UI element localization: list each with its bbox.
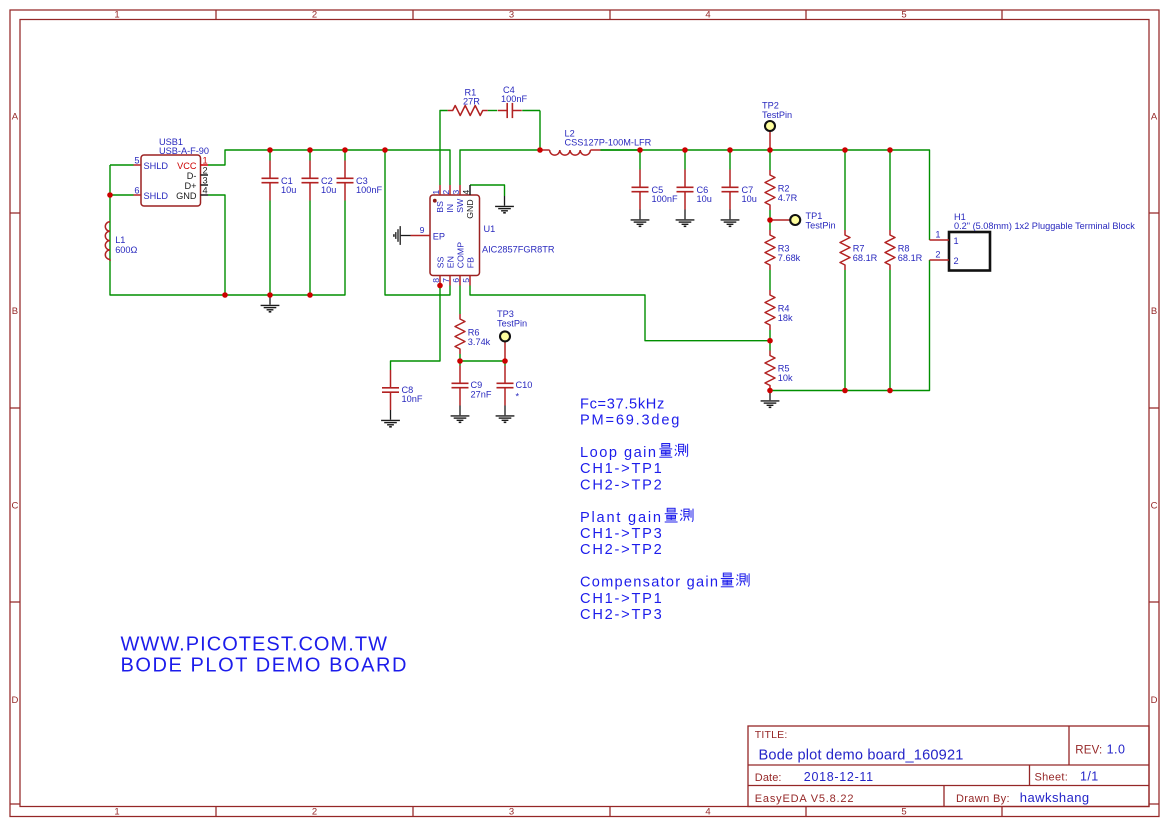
capacitor C5	[639, 170, 641, 188]
wire FB node to R5	[769, 341, 771, 351]
wire FB to feedback divider	[470, 286, 770, 341]
terminal block H1	[949, 232, 990, 271]
svg-text:10u: 10u	[742, 194, 757, 204]
wire BS branch via R1 C4	[440, 111, 448, 186]
wire U1 GND pin4 to ground	[470, 185, 505, 196]
resistor R3	[765, 230, 775, 270]
svg-text:C10: C10	[516, 380, 533, 390]
svg-text:CH2->TP2: CH2->TP2	[580, 477, 664, 493]
wire EN feed from VIN rail	[385, 150, 450, 295]
svg-text:0.2" (5.08mm) 1x2 Pluggable Te: 0.2" (5.08mm) 1x2 Pluggable Terminal Blo…	[954, 221, 1135, 231]
svg-text:7.68k: 7.68k	[778, 253, 801, 263]
junction dot FB node	[767, 338, 773, 344]
wire USB pin6	[110, 194, 134, 196]
capacitor C8	[390, 370, 392, 388]
test point TP3	[504, 341, 506, 361]
resistor R4	[765, 290, 775, 330]
junction dot USB shield	[107, 192, 113, 198]
wire R8 connections	[889, 150, 891, 230]
svg-text:SS: SS	[435, 256, 445, 268]
svg-text:EN: EN	[445, 256, 455, 268]
svg-text:SW: SW	[455, 198, 465, 213]
title block	[748, 726, 1149, 807]
svg-text:TestPin: TestPin	[806, 221, 836, 231]
svg-text:6: 6	[134, 185, 139, 195]
capacitor C3	[344, 161, 346, 179]
svg-text:5: 5	[461, 278, 471, 283]
svg-text:8: 8	[431, 278, 441, 283]
capacitor C2	[309, 161, 311, 179]
svg-text:L1: L1	[115, 235, 125, 245]
wire TP1 node to R3	[769, 220, 771, 230]
svg-text:1: 1	[114, 10, 119, 21]
svg-text:18k: 18k	[778, 313, 793, 323]
svg-text:5: 5	[901, 10, 906, 21]
svg-text:TP2: TP2	[762, 101, 779, 111]
svg-text:2018-12-11: 2018-12-11	[804, 770, 874, 784]
svg-text:Plant gain: Plant gain	[580, 510, 663, 526]
USB1 pin 1 VCC	[201, 164, 209, 166]
svg-text:10nF: 10nF	[402, 394, 423, 404]
svg-text:D: D	[1151, 695, 1158, 706]
svg-text:CH2->TP2: CH2->TP2	[580, 542, 664, 558]
wire R2 top	[769, 150, 771, 170]
svg-text:TITLE:: TITLE:	[755, 729, 788, 741]
svg-text:C: C	[11, 500, 18, 511]
svg-text:WWW.PICOTEST.COM.TW: WWW.PICOTEST.COM.TW	[121, 633, 389, 655]
svg-text:5: 5	[134, 155, 139, 165]
U1 pin 6 COMP	[459, 276, 461, 286]
svg-text:CH2->TP3: CH2->TP3	[580, 607, 664, 623]
svg-text:EP: EP	[433, 231, 445, 241]
svg-text:Drawn By:: Drawn By:	[956, 793, 1010, 805]
junction dots GND rail right	[767, 388, 773, 394]
svg-text:D+: D+	[184, 181, 196, 191]
USB1 pin 6 SHLD	[134, 194, 142, 196]
op-amp U1 AIC2857FGR8TR body	[430, 195, 480, 276]
test point TP2	[769, 131, 771, 151]
svg-text:R6: R6	[468, 328, 480, 338]
svg-text:USB-A-F-90: USB-A-F-90	[159, 146, 209, 156]
svg-text:10k: 10k	[778, 373, 793, 383]
wire C3 top lead	[344, 150, 346, 161]
svg-text:R4: R4	[778, 304, 790, 314]
U1 pin 2 IN	[449, 185, 451, 195]
svg-text:CH1->TP1: CH1->TP1	[580, 461, 664, 477]
capacitor C7	[729, 170, 731, 188]
svg-text:R8: R8	[898, 244, 910, 254]
capacitor C9	[459, 366, 461, 384]
wire C6 drop	[684, 150, 686, 170]
svg-text:Sheet:: Sheet:	[1035, 771, 1069, 783]
resistor R8	[885, 230, 895, 270]
U1 pin1 marker	[433, 199, 437, 203]
svg-text:TP3: TP3	[497, 309, 514, 319]
svg-text:2: 2	[312, 807, 317, 818]
svg-text:7: 7	[441, 278, 451, 283]
U1 pin 3 SW	[459, 185, 461, 195]
svg-text:4: 4	[705, 807, 710, 818]
svg-text:COMP: COMP	[455, 242, 465, 269]
junction dots COMP node	[457, 358, 463, 364]
svg-text:BS: BS	[435, 201, 445, 213]
svg-text:EasyEDA V5.8.22: EasyEDA V5.8.22	[755, 793, 854, 805]
svg-text:D-: D-	[187, 171, 197, 181]
svg-text:CH1->TP1: CH1->TP1	[580, 591, 664, 607]
wire C2 leads	[309, 150, 311, 161]
svg-text:10u: 10u	[321, 185, 336, 195]
svg-text:3: 3	[509, 807, 514, 818]
inductor L1	[105, 222, 110, 260]
svg-text:VCC: VCC	[177, 161, 197, 171]
svg-text:BODE PLOT DEMO BOARD: BODE PLOT DEMO BOARD	[121, 655, 409, 677]
svg-text:4: 4	[705, 10, 710, 21]
svg-text:CSS127P-100M-LFR: CSS127P-100M-LFR	[565, 138, 652, 148]
USB1 pin 2 D-	[201, 174, 209, 176]
svg-text:R2: R2	[778, 184, 790, 194]
H1 pin 2	[930, 259, 950, 261]
resistor R2	[765, 170, 775, 210]
svg-text:B: B	[1151, 306, 1157, 317]
U1 pin 1 BS	[439, 185, 441, 195]
svg-text:TP1: TP1	[806, 211, 823, 221]
ground at C5	[639, 210, 641, 220]
svg-text:3: 3	[203, 175, 208, 185]
svg-text:2: 2	[954, 256, 959, 266]
svg-text:1: 1	[203, 155, 208, 165]
svg-text:R5: R5	[778, 364, 790, 374]
svg-text:100nF: 100nF	[356, 185, 382, 195]
svg-text:FB: FB	[465, 257, 475, 268]
wire SW to L2	[460, 150, 540, 185]
svg-text:10u: 10u	[697, 194, 712, 204]
capacitor C4	[498, 110, 507, 112]
svg-text:*: *	[516, 392, 520, 402]
ground at R5	[769, 391, 771, 401]
test point TP1	[770, 219, 791, 221]
U1 pin 9 EP	[411, 235, 431, 237]
svg-text:Compensator gain: Compensator gain	[580, 575, 719, 591]
svg-text:5: 5	[901, 807, 906, 818]
svg-text:C9: C9	[471, 380, 483, 390]
capacitor C10	[504, 366, 506, 384]
svg-text:C: C	[1151, 500, 1158, 511]
wire C5 drop	[639, 150, 641, 170]
resistor R1	[448, 106, 488, 116]
svg-text:100nF: 100nF	[501, 94, 527, 104]
svg-text:Bode plot demo board_160921: Bode plot demo board_160921	[759, 748, 964, 764]
svg-text:Fc=37.5kHz: Fc=37.5kHz	[580, 396, 665, 412]
svg-text:2: 2	[441, 190, 451, 195]
svg-text:SHLD: SHLD	[144, 161, 169, 171]
svg-text:REV:: REV:	[1075, 745, 1102, 757]
svg-text:1: 1	[935, 230, 940, 240]
svg-text:68.1R: 68.1R	[898, 253, 923, 263]
capacitor C6	[684, 170, 686, 188]
svg-text:CH1->TP3: CH1->TP3	[580, 526, 664, 542]
ground at C7	[729, 210, 731, 220]
wire USB pin5	[110, 164, 134, 166]
junction dot SS pin	[437, 283, 443, 289]
resistor R5	[765, 351, 775, 391]
svg-text:1/1: 1/1	[1080, 769, 1099, 783]
svg-text:Loop gain: Loop gain	[580, 445, 658, 461]
svg-text:3.74k: 3.74k	[468, 337, 491, 347]
svg-text:hawkshang: hawkshang	[1020, 790, 1090, 805]
wire R6 to C9 C10 node	[459, 354, 461, 361]
wire R7 connections	[844, 150, 846, 230]
svg-text:U1: U1	[484, 224, 496, 234]
svg-text:A: A	[12, 112, 19, 123]
svg-text:4.7R: 4.7R	[778, 193, 798, 203]
svg-text:9: 9	[420, 225, 425, 235]
USB1 pin 4 GND	[201, 194, 209, 196]
H1 pin 1	[930, 239, 950, 241]
svg-text:1.0: 1.0	[1107, 743, 1126, 757]
U1 pin 4 GND	[469, 185, 471, 195]
ground at U1 pin4	[504, 196, 506, 206]
svg-text:SHLD: SHLD	[144, 191, 169, 201]
junction dots GND rail left	[222, 292, 228, 298]
junction dot TP1 node	[767, 217, 773, 223]
wire L2 to C5	[601, 149, 641, 151]
wire R2 to TP1 node	[769, 210, 771, 220]
svg-text:3: 3	[451, 190, 461, 195]
svg-text:1: 1	[431, 190, 441, 195]
USB1 pin 3 D+	[201, 184, 209, 186]
svg-text:B: B	[12, 306, 18, 317]
junction dots VIN rail	[267, 147, 273, 153]
svg-text:2: 2	[935, 250, 940, 260]
svg-text:2: 2	[312, 10, 317, 21]
wire USB GND pin4 drop	[208, 195, 225, 295]
U1 pin 8 SS	[439, 276, 441, 286]
wire R3 to R4	[769, 270, 771, 290]
ground at C10	[504, 406, 506, 416]
ground at GND rail	[269, 295, 271, 305]
ground at C6	[684, 210, 686, 220]
connector USB1	[141, 155, 201, 206]
inductor L2	[550, 150, 591, 155]
svg-text:D: D	[11, 695, 18, 706]
svg-text:IN: IN	[445, 204, 455, 213]
svg-text:4: 4	[203, 185, 208, 195]
U1 pin 5 FB	[469, 276, 471, 286]
svg-text:600Ω: 600Ω	[115, 245, 137, 255]
capacitor C1	[269, 161, 271, 179]
wire comp node C9-C10	[460, 360, 505, 362]
svg-text:TestPin: TestPin	[497, 319, 527, 329]
svg-text:27nF: 27nF	[471, 390, 492, 400]
svg-text:A: A	[1151, 112, 1158, 123]
svg-text:AIC2857FGR8TR: AIC2857FGR8TR	[482, 245, 555, 255]
svg-text:100nF: 100nF	[652, 194, 678, 204]
wire COMP to R6	[459, 286, 461, 315]
svg-text:Date:: Date:	[755, 772, 782, 784]
ground at C9	[459, 406, 461, 416]
svg-text:PM=69.3deg: PM=69.3deg	[580, 413, 681, 429]
wire H1 pin2 to GND rail	[770, 260, 930, 391]
svg-text:27R: 27R	[463, 97, 480, 107]
U1 pin 7 EN	[449, 276, 451, 286]
svg-text:GND: GND	[465, 199, 475, 219]
svg-text:R3: R3	[778, 244, 790, 254]
wire VOUT rail	[601, 150, 930, 240]
wire SS to C8	[391, 286, 441, 371]
wire VIN top rail	[208, 150, 450, 185]
wire GND bottom-left rail	[110, 165, 345, 295]
svg-text:GND: GND	[176, 191, 197, 201]
resistor R6	[455, 314, 465, 354]
svg-text:2: 2	[203, 165, 208, 175]
svg-text:R7: R7	[853, 244, 865, 254]
svg-text:4: 4	[461, 190, 471, 195]
resistor R7	[840, 230, 850, 270]
USB1 pin 5 SHLD	[134, 164, 142, 166]
wire R4 to FB node	[769, 330, 771, 341]
svg-text:1: 1	[954, 236, 959, 246]
svg-text:68.1R: 68.1R	[853, 253, 878, 263]
junction dots VOUT rail	[537, 147, 543, 153]
ground at C8	[390, 410, 392, 420]
svg-text:10u: 10u	[281, 185, 296, 195]
svg-text:6: 6	[451, 278, 461, 283]
wire C1 leads	[269, 150, 271, 161]
svg-text:1: 1	[114, 807, 119, 818]
svg-text:3: 3	[509, 10, 514, 21]
svg-text:TestPin: TestPin	[762, 110, 792, 120]
wire C7 drop	[729, 150, 731, 170]
ground at EP	[401, 235, 411, 237]
